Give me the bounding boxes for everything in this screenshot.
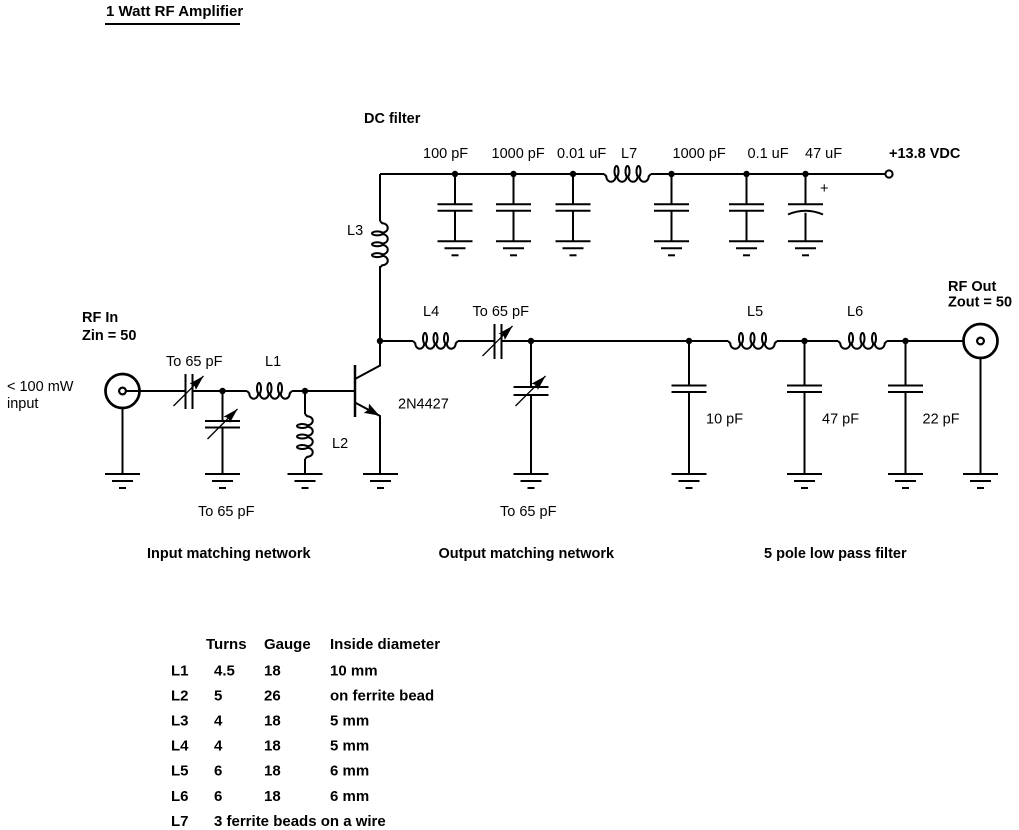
svg-text:47 pF: 47 pF (822, 412, 859, 428)
svg-text:Inside diameter: Inside diameter (330, 636, 440, 653)
ground under L2 (288, 474, 323, 488)
value label C3 0.01 uF (557, 146, 606, 162)
svg-text:L7: L7 (621, 146, 637, 162)
junction node C2 (510, 171, 516, 177)
wire L2 to ground (304, 459, 306, 474)
wire J2 to ground (980, 358, 982, 474)
junction node E (801, 338, 807, 344)
junction node C1 (452, 171, 458, 177)
svg-text:L1: L1 (265, 354, 281, 370)
svg-text:L5: L5 (171, 763, 189, 780)
svg-text:L5: L5 (747, 304, 763, 320)
svg-text:L4: L4 (423, 304, 439, 320)
svg-text:5 mm: 5 mm (330, 738, 369, 755)
ground under C7 (788, 241, 823, 255)
capacitor C5 1000 pF (654, 174, 689, 241)
label RF Out (948, 279, 996, 295)
svg-text:1000 pF: 1000 pF (673, 146, 726, 162)
svg-text:Output matching network: Output matching network (439, 546, 616, 562)
wire rail drop to L3 (379, 174, 381, 221)
svg-text:6: 6 (214, 763, 222, 780)
capacitor C6 0.1 uF (729, 174, 764, 241)
variable capacitor VC2 To 65 pF (205, 409, 240, 474)
wire +V rail right (651, 173, 885, 175)
value label C10 22 pF (923, 412, 960, 428)
value label C8 10 pF (706, 412, 743, 428)
ground under VC4 (514, 474, 549, 488)
ground under C1 (438, 241, 473, 255)
svg-text:DC filter: DC filter (364, 111, 421, 127)
svg-text:Gauge: Gauge (264, 636, 311, 653)
label RF In (82, 310, 118, 326)
svg-text:5: 5 (214, 688, 222, 705)
svg-text:Input matching network: Input matching network (147, 546, 311, 562)
svg-text:To 65 pF: To 65 pF (500, 504, 557, 520)
wire +V rail left (380, 173, 604, 175)
inductor L6 (838, 333, 887, 349)
svg-text:18: 18 (264, 788, 281, 805)
wire node B to L2 (304, 391, 306, 414)
ground under C8 (672, 474, 707, 488)
wire J1 to VC1 (126, 390, 185, 392)
svg-text:Turns: Turns (206, 636, 247, 653)
label < 100 mW (7, 379, 74, 395)
variable capacitor VC3 To 65 pF (483, 324, 513, 359)
junction node C7 (802, 171, 808, 177)
svg-text:+: + (820, 181, 828, 197)
value label C7 47 uF (805, 146, 842, 162)
connector J1 RF In (106, 374, 140, 408)
svg-text:100 pF: 100 pF (423, 146, 468, 162)
svg-text:input: input (7, 396, 38, 412)
svg-text:6 mm: 6 mm (330, 788, 369, 805)
svg-text:L6: L6 (171, 788, 189, 805)
svg-text:on ferrite bead: on ferrite bead (330, 688, 434, 705)
wire node A to VC2 (222, 391, 224, 421)
svg-text:18: 18 (264, 713, 281, 730)
ground under J2 (963, 474, 998, 488)
capacitor C10 22 pF (888, 341, 923, 474)
svg-text:0.1 uF: 0.1 uF (748, 146, 789, 162)
label Zin = 50 (82, 328, 136, 344)
value label VC1 To 65 pF (166, 354, 223, 370)
value label C6 0.1 uF (748, 146, 789, 162)
svg-text:6: 6 (214, 788, 222, 805)
svg-text:4: 4 (214, 738, 223, 755)
ground under J1 (105, 474, 140, 488)
wire collector to L4 (380, 340, 413, 342)
terminal +13.8 VDC (885, 170, 892, 177)
wire L4 to VC3 (458, 340, 494, 342)
svg-text:22 pF: 22 pF (923, 412, 960, 428)
inductor L1 (247, 383, 292, 399)
svg-text:10 pF: 10 pF (706, 412, 743, 428)
label L2 (332, 436, 348, 452)
label L7 (621, 146, 637, 162)
svg-text:18: 18 (264, 663, 281, 680)
label +13.8 VDC (889, 146, 961, 162)
svg-text:18: 18 (264, 763, 281, 780)
junction node C6 (743, 171, 749, 177)
label 5 pole low pass filter (764, 546, 907, 562)
value label C5 1000 pF (673, 146, 726, 162)
svg-text:2N4427: 2N4427 (398, 397, 449, 413)
label DC filter (364, 111, 421, 127)
svg-text:L2: L2 (171, 688, 189, 705)
svg-text:To 65 pF: To 65 pF (198, 504, 255, 520)
wire L1 to base (292, 390, 354, 392)
svg-text:3 ferrite beads on a wire: 3 ferrite beads on a wire (214, 813, 386, 830)
junction node B (302, 388, 308, 394)
ground under C9 (787, 474, 822, 488)
label Zout = 50 (948, 295, 1012, 311)
svg-text:RF Out: RF Out (948, 279, 996, 295)
svg-text:4: 4 (214, 713, 223, 730)
ground under C10 (888, 474, 923, 488)
value label VC3 To 65 pF (473, 304, 530, 320)
svg-text:Zin = 50: Zin = 50 (82, 328, 136, 344)
junction node A (219, 388, 225, 394)
svg-text:L6: L6 (847, 304, 863, 320)
svg-text:+13.8 VDC: +13.8 VDC (889, 146, 961, 162)
capacitor C8 10 pF (672, 341, 707, 474)
title text (106, 3, 243, 20)
svg-text:To 65 pF: To 65 pF (166, 354, 223, 370)
svg-text:5 pole low pass filter: 5 pole low pass filter (764, 546, 907, 562)
svg-text:Zout = 50: Zout = 50 (948, 295, 1012, 311)
svg-text:< 100 mW: < 100 mW (7, 379, 74, 395)
wire VC3 to node C (502, 340, 729, 342)
wire L6 to J2 (887, 340, 964, 342)
wire VC1 to node A (193, 390, 248, 392)
label Output matching network (439, 546, 616, 562)
svg-text:10 mm: 10 mm (330, 663, 378, 680)
value label C2 1000 pF (492, 146, 545, 162)
svg-text:L1: L1 (171, 663, 189, 680)
capacitor C9 47 pF (787, 341, 822, 474)
inductor L7 (604, 166, 651, 182)
inductor L3 (372, 221, 388, 268)
variable capacitor VC1 To 65 pF (174, 374, 204, 409)
svg-text:L3: L3 (347, 223, 363, 239)
junction node D (686, 338, 692, 344)
wire L5 to L6 (777, 340, 838, 342)
svg-text:To 65 pF: To 65 pF (473, 304, 530, 320)
junction node C5 (668, 171, 674, 177)
svg-text:0.01 uF: 0.01 uF (557, 146, 606, 162)
svg-text:L3: L3 (171, 713, 189, 730)
junction node C3 (570, 171, 576, 177)
ground under C3 (556, 241, 591, 255)
svg-text:1000 pF: 1000 pF (492, 146, 545, 162)
value label VC2 To 65 pF (198, 504, 255, 520)
inductor L5 (728, 333, 777, 349)
svg-text:26: 26 (264, 688, 281, 705)
wire node C to VC4 (530, 341, 532, 387)
ground under C2 (496, 241, 531, 255)
junction node F (902, 338, 908, 344)
svg-text:RF In: RF In (82, 310, 118, 326)
wire J1 to ground (122, 408, 124, 474)
label L6 (847, 304, 863, 320)
capacitor C1 100 pF (438, 174, 473, 241)
inductor L4 (413, 333, 458, 349)
ground under Q1 emitter (363, 474, 398, 488)
variable capacitor VC4 To 65 pF (514, 376, 549, 474)
junction node collector (377, 338, 383, 344)
wire L3 to collector node (379, 266, 381, 341)
ground under VC2 (205, 474, 240, 488)
ground under C6 (729, 241, 764, 255)
label L3 (347, 223, 363, 239)
polarity + sign C7 (820, 181, 828, 197)
coil winding table (171, 636, 440, 830)
svg-text:L2: L2 (332, 436, 348, 452)
label L4 (423, 304, 439, 320)
value label C1 100 pF (423, 146, 468, 162)
svg-text:5 mm: 5 mm (330, 713, 369, 730)
svg-text:1 Watt RF Amplifier: 1 Watt RF Amplifier (106, 3, 243, 20)
value label C9 47 pF (822, 412, 859, 428)
ground under C5 (654, 241, 689, 255)
label L1 (265, 354, 281, 370)
capacitor C2 1000 pF (496, 174, 531, 241)
capacitor C3 0.01 uF (556, 174, 591, 241)
title underline (105, 23, 240, 25)
connector J2 RF Out (964, 324, 998, 358)
label input (7, 396, 38, 412)
svg-text:6 mm: 6 mm (330, 763, 369, 780)
svg-text:47 uF: 47 uF (805, 146, 842, 162)
value label VC4 To 65 pF (500, 504, 557, 520)
label L5 (747, 304, 763, 320)
svg-text:L4: L4 (171, 738, 189, 755)
svg-text:4.5: 4.5 (214, 663, 235, 680)
label Q1 2N4427 (398, 397, 449, 413)
capacitor C7 47 uF electrolytic (788, 174, 823, 241)
inductor L2 (297, 414, 313, 459)
label Input matching network (147, 546, 311, 562)
svg-text:L7: L7 (171, 813, 189, 830)
transistor Q1 2N4427 (355, 341, 380, 473)
junction node C (528, 338, 534, 344)
svg-text:18: 18 (264, 738, 281, 755)
